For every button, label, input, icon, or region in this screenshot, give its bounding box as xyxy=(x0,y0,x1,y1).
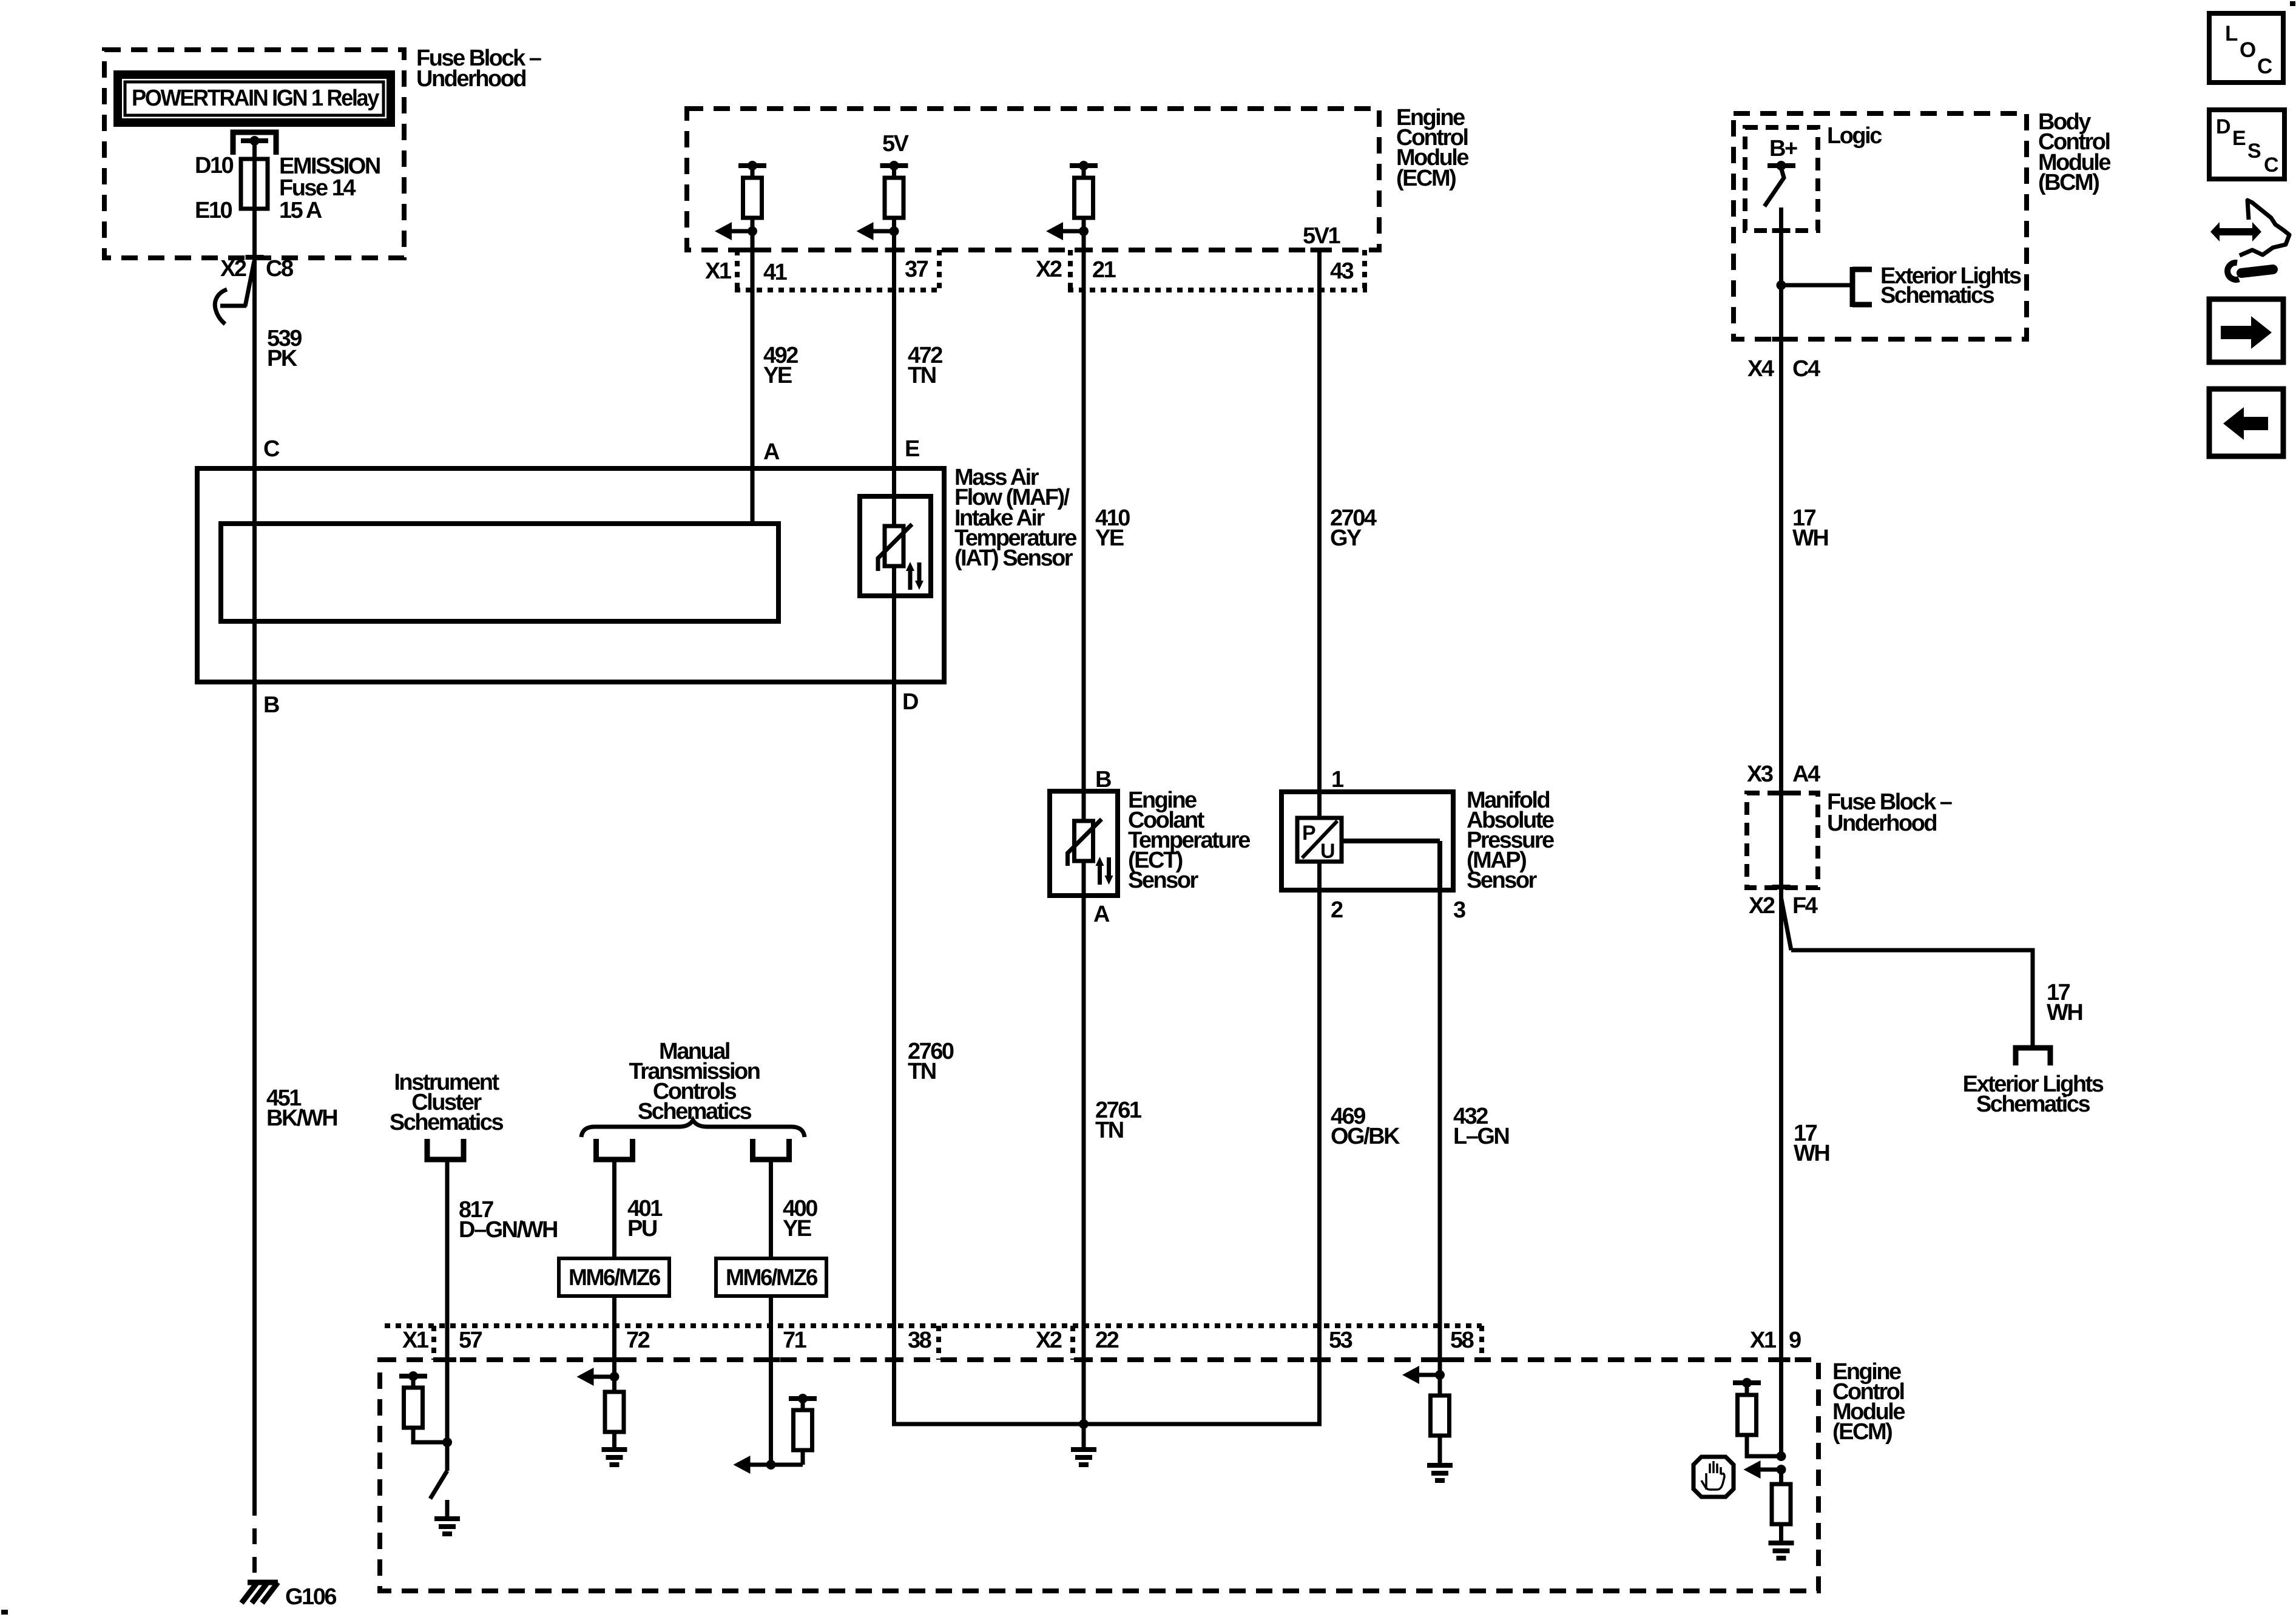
label Manifold Absolute Pressure (MAP) Sensor xyxy=(1467,788,1554,893)
svg-text:S: S xyxy=(2247,140,2261,163)
svg-text:Logic: Logic xyxy=(1827,123,1882,149)
label Fuse Block - Underhood (right) xyxy=(1827,789,1952,836)
label Fuse Block - Underhood (top left) xyxy=(416,46,541,92)
svg-text:C8: C8 xyxy=(266,256,293,282)
wire 410 YE from pin 21 to ECT B and on to pin 22 (2761 TN) xyxy=(1082,231,1086,1424)
ECM bottom connector dotted row xyxy=(385,1326,1482,1360)
svg-text:B: B xyxy=(1095,767,1111,792)
svg-text:X3: X3 xyxy=(1747,761,1773,787)
svg-text:TN: TN xyxy=(1095,1118,1123,1143)
svg-text:Schematics: Schematics xyxy=(1976,1092,2090,1117)
svg-text:5V1: 5V1 xyxy=(1303,223,1340,249)
label Manual Transmission Controls Schematics xyxy=(629,1039,760,1124)
brace over manual transmission connectors xyxy=(581,1120,805,1137)
pin labels X2 21 43 xyxy=(1036,257,1354,284)
ECM (bottom) dashed box xyxy=(380,1360,1818,1591)
page corner tick top right xyxy=(2290,1,2295,6)
svg-text:D: D xyxy=(902,689,918,715)
svg-text:TN: TN xyxy=(908,1059,936,1084)
pin labels X4 C4 xyxy=(1747,356,1820,382)
pin 57 switch to ground xyxy=(430,1442,460,1534)
svg-text:71: 71 xyxy=(783,1328,807,1353)
svg-text:WH: WH xyxy=(2047,1000,2082,1025)
svg-text:P: P xyxy=(1302,822,1315,845)
connector X2 C8 in-line symbol xyxy=(215,261,254,324)
svg-text:X1: X1 xyxy=(1750,1328,1777,1353)
MM6/MZ6 option box 1 xyxy=(559,1258,669,1296)
wire 539 PK continues into MAF box / wire 451 BK WH below xyxy=(252,468,257,1500)
off-page connector bracket Exterior Lights xyxy=(1852,267,1872,307)
wire from relay through fuse to C8 xyxy=(252,141,257,468)
pin 57 input circuit: pull-up resistor xyxy=(399,1371,452,1447)
pin 72 circuit: junction arrow resistor ground xyxy=(577,1368,627,1465)
page corner tick bottom left xyxy=(1,1610,8,1615)
svg-text:58: 58 xyxy=(1450,1328,1474,1353)
svg-text:15 A: 15 A xyxy=(279,198,322,223)
wire 2704 GY from pin 43 to MAP 1 and on (469 OG/BK to pin 53) xyxy=(1317,250,1322,1424)
IAT thermistor box inside MAF xyxy=(860,496,931,596)
svg-text:3: 3 xyxy=(1453,897,1465,923)
pin crossing ticks xyxy=(246,231,1791,1360)
label 451 BK/WH xyxy=(266,1085,337,1131)
svg-text:YE: YE xyxy=(783,1216,811,1241)
svg-text:TN: TN xyxy=(908,363,936,388)
label EMISSION Fuse 14 15 A xyxy=(279,154,380,223)
pin labels X2 F4 xyxy=(1749,893,1818,919)
MAP sensor box xyxy=(1281,792,1453,890)
label 17 WH (upper) xyxy=(1792,505,1828,551)
label 817 D-GN/WH xyxy=(459,1197,557,1243)
ECT thermistor symbol xyxy=(1068,819,1113,885)
ECM top connector row dotted box X1 xyxy=(735,250,942,290)
svg-text:B+: B+ xyxy=(1769,136,1797,161)
sensor ground bus from pin 38 to pin 53 xyxy=(894,1360,1320,1424)
off-page bracket instrument cluster xyxy=(427,1139,464,1160)
svg-text:A: A xyxy=(1093,902,1110,927)
label Engine Control Module (ECM) bottom xyxy=(1832,1359,1905,1445)
svg-text:E: E xyxy=(905,436,919,462)
pin labels X3 A4 xyxy=(1747,761,1820,787)
ECM pull-up resistor for pin 21 xyxy=(1046,161,1098,240)
svg-text:MM6/MZ6: MM6/MZ6 xyxy=(726,1265,817,1291)
MAF sensor inner element box xyxy=(221,524,778,621)
icon adjust: double arrow, panel outline, wrench xyxy=(2210,200,2289,280)
svg-text:53: 53 xyxy=(1329,1328,1352,1353)
svg-text:43: 43 xyxy=(1330,258,1354,284)
label X2 C8 xyxy=(220,256,293,282)
svg-text:X2: X2 xyxy=(1036,257,1062,282)
ECM (top) dashed box xyxy=(687,109,1379,250)
ECM pull-up resistor for pin 41 xyxy=(715,161,766,240)
label 492 YE xyxy=(763,343,798,388)
svg-text:BK/WH: BK/WH xyxy=(266,1106,337,1131)
MAP internal wire from P/U to pin 3 xyxy=(1342,841,1440,890)
svg-text:PU: PU xyxy=(627,1216,657,1241)
svg-text:GY: GY xyxy=(1330,525,1362,551)
svg-text:X1: X1 xyxy=(402,1328,429,1353)
ECT sensor box xyxy=(1050,791,1118,896)
wire from B+ switch to X4 C4 xyxy=(1779,208,1783,1456)
pin 58 circuit: junction arrow resistor ground xyxy=(1402,1366,1453,1480)
label wire 539 PK xyxy=(267,326,302,371)
svg-text:41: 41 xyxy=(763,260,788,285)
svg-text:(BCM): (BCM) xyxy=(2038,170,2099,195)
svg-text:X1: X1 xyxy=(705,258,732,284)
svg-text:C: C xyxy=(263,436,280,462)
label Mass Air Flow (MAF)/ Intake Air Temperature (IAT) Sensor xyxy=(954,465,1076,571)
ECM pull-up resistor for pin 37 (5V) xyxy=(857,131,910,240)
label Exterior Lights Schematics (bottom right) xyxy=(1963,1072,2104,1117)
svg-text:C4: C4 xyxy=(1792,356,1820,382)
pin 9 circuit: pull-up resistor xyxy=(1733,1378,1786,1461)
icon DESC box xyxy=(2209,110,2284,179)
relay output pin bracket xyxy=(233,132,276,155)
svg-text:5V: 5V xyxy=(882,131,910,157)
svg-text:1: 1 xyxy=(1331,767,1344,792)
svg-text:9: 9 xyxy=(1789,1328,1801,1353)
label 401 PU xyxy=(627,1196,663,1241)
label 2761 TN xyxy=(1095,1098,1142,1143)
svg-text:D: D xyxy=(2216,115,2231,138)
B+ supply symbol with switch blade xyxy=(1764,161,1795,206)
label 472 TN xyxy=(908,343,942,388)
branch wire 17 WH to Exterior Lights xyxy=(1781,898,2033,1045)
label 17 WH (lower main) xyxy=(1794,1121,1829,1166)
svg-text:(ECM): (ECM) xyxy=(1832,1419,1892,1445)
svg-text:C: C xyxy=(2264,154,2279,177)
icon forward arrow box xyxy=(2209,299,2283,362)
svg-text:22: 22 xyxy=(1095,1328,1119,1353)
MAF/IAT sensor outer box xyxy=(197,468,944,682)
ground bus junction and ground xyxy=(1071,1419,1096,1465)
relay K: POWERTRAIN IGN 1 Relay box xyxy=(118,75,391,123)
svg-text:Underhood: Underhood xyxy=(416,66,525,92)
icon back arrow box xyxy=(2209,389,2283,456)
svg-text:E10: E10 xyxy=(195,198,232,223)
off-page bracket manual trans 1 xyxy=(596,1139,633,1160)
fuse block underhood (top left) dashed box xyxy=(104,50,404,258)
svg-text:Schematics: Schematics xyxy=(1880,283,1994,308)
svg-text:G106: G106 xyxy=(285,1584,336,1610)
wire 492 YE from pin 41 to MAF A xyxy=(751,231,755,524)
fuse F14: EMISSION Fuse 14 15A xyxy=(241,159,268,209)
label 432 L-GN xyxy=(1453,1104,1508,1149)
pin labels X1 57 72 71 38 xyxy=(402,1328,931,1353)
svg-text:Schematics: Schematics xyxy=(390,1110,504,1135)
stop hand caution icon xyxy=(1693,1457,1734,1497)
svg-text:L–GN: L–GN xyxy=(1453,1124,1508,1149)
svg-text:57: 57 xyxy=(459,1328,482,1353)
svg-text:C: C xyxy=(2257,55,2272,78)
ECM top connector row dotted box X2 xyxy=(1068,250,1367,290)
svg-text:2: 2 xyxy=(1331,897,1343,923)
wire 817 D-GN/WH to pin 57 xyxy=(445,1160,450,1442)
pin labels X1 9 xyxy=(1750,1328,1801,1353)
pin 9 junction arrow resistor ground xyxy=(1744,1460,1794,1558)
wire 432 L-GN from MAP 3 to pin 58 xyxy=(1438,890,1442,1375)
svg-text:D10: D10 xyxy=(195,153,234,178)
svg-text:Underhood: Underhood xyxy=(1827,811,1936,836)
junction to Exterior Lights branch xyxy=(1777,280,1852,290)
svg-text:POWERTRAIN IGN 1 Relay: POWERTRAIN IGN 1 Relay xyxy=(132,86,379,111)
svg-text:OG/BK: OG/BK xyxy=(1331,1124,1400,1149)
icon LOC box xyxy=(2209,13,2283,83)
label 469 OG/BK xyxy=(1331,1104,1400,1149)
fuse block underhood (right) dashed box X3/A4-X2/F4 xyxy=(1747,793,1818,888)
wire 401 PU to pin 72 xyxy=(612,1160,616,1377)
svg-text:F4: F4 xyxy=(1792,893,1818,919)
svg-text:WH: WH xyxy=(1792,525,1828,551)
label Engine Control Module (ECM) top xyxy=(1396,105,1468,191)
svg-text:Sensor: Sensor xyxy=(1128,868,1199,893)
svg-text:(IAT) Sensor: (IAT) Sensor xyxy=(954,545,1073,571)
svg-text:WH: WH xyxy=(1794,1141,1829,1166)
MAP P/U transducer square xyxy=(1297,818,1342,863)
IAT thermistor symbol xyxy=(878,524,923,590)
label Exterior Lights Schematics (BCM) xyxy=(1880,263,2021,308)
wire 472 TN from pin 37 to MAF E and on to pin 38 (2760 TN) xyxy=(892,231,896,1424)
svg-text:X2: X2 xyxy=(1749,893,1775,919)
svg-text:37: 37 xyxy=(905,257,928,282)
svg-text:O: O xyxy=(2240,38,2256,62)
BCM Logic dashed box xyxy=(1745,127,1818,231)
off-page bracket manual trans 2 xyxy=(753,1139,789,1160)
wire 451 dashed lower portion xyxy=(252,1500,257,1580)
svg-text:U: U xyxy=(1320,840,1334,863)
label 410 YE xyxy=(1095,505,1130,551)
svg-text:D–GN/WH: D–GN/WH xyxy=(459,1217,557,1243)
ground G106 chassis symbol xyxy=(241,1582,278,1603)
label Engine Coolant Temperature (ECT) Sensor xyxy=(1128,788,1250,893)
svg-text:YE: YE xyxy=(1095,525,1124,551)
pin labels X2 22 53 58 xyxy=(1036,1328,1474,1353)
label Body Control Module (BCM) xyxy=(2038,109,2110,195)
pin labels X1 41 37 xyxy=(705,257,928,285)
label 17 WH (branch) xyxy=(2047,980,2082,1025)
svg-text:Sensor: Sensor xyxy=(1467,868,1538,893)
label 2704 GY xyxy=(1330,505,1377,551)
svg-text:YE: YE xyxy=(763,363,792,388)
svg-text:A4: A4 xyxy=(1792,761,1820,787)
wire 400 YE to pin 71 xyxy=(769,1160,773,1465)
svg-text:L: L xyxy=(2225,22,2238,46)
off-page bracket to Exterior Lights (down) xyxy=(2016,1048,2050,1065)
svg-text:(ECM): (ECM) xyxy=(1396,166,1456,191)
svg-text:PK: PK xyxy=(267,346,298,371)
label 2760 TN xyxy=(908,1039,954,1084)
MM6/MZ6 option box 2 xyxy=(716,1258,826,1296)
svg-text:E: E xyxy=(2232,127,2246,150)
label Instrument Cluster Schematics xyxy=(390,1070,504,1135)
label 400 YE xyxy=(783,1196,817,1241)
svg-text:X2: X2 xyxy=(220,256,246,282)
svg-text:72: 72 xyxy=(626,1328,650,1353)
pin 71 circuit: junction arrow and pull-up resistor xyxy=(734,1394,817,1474)
svg-text:MM6/MZ6: MM6/MZ6 xyxy=(569,1265,660,1291)
svg-text:38: 38 xyxy=(908,1328,931,1353)
svg-text:Fuse 14: Fuse 14 xyxy=(279,175,356,201)
svg-text:A: A xyxy=(763,439,780,465)
BCM dashed box xyxy=(1734,113,2027,339)
svg-text:21: 21 xyxy=(1092,257,1116,283)
svg-text:X4: X4 xyxy=(1747,356,1774,382)
svg-text:B: B xyxy=(263,692,279,718)
svg-text:X2: X2 xyxy=(1036,1328,1062,1353)
